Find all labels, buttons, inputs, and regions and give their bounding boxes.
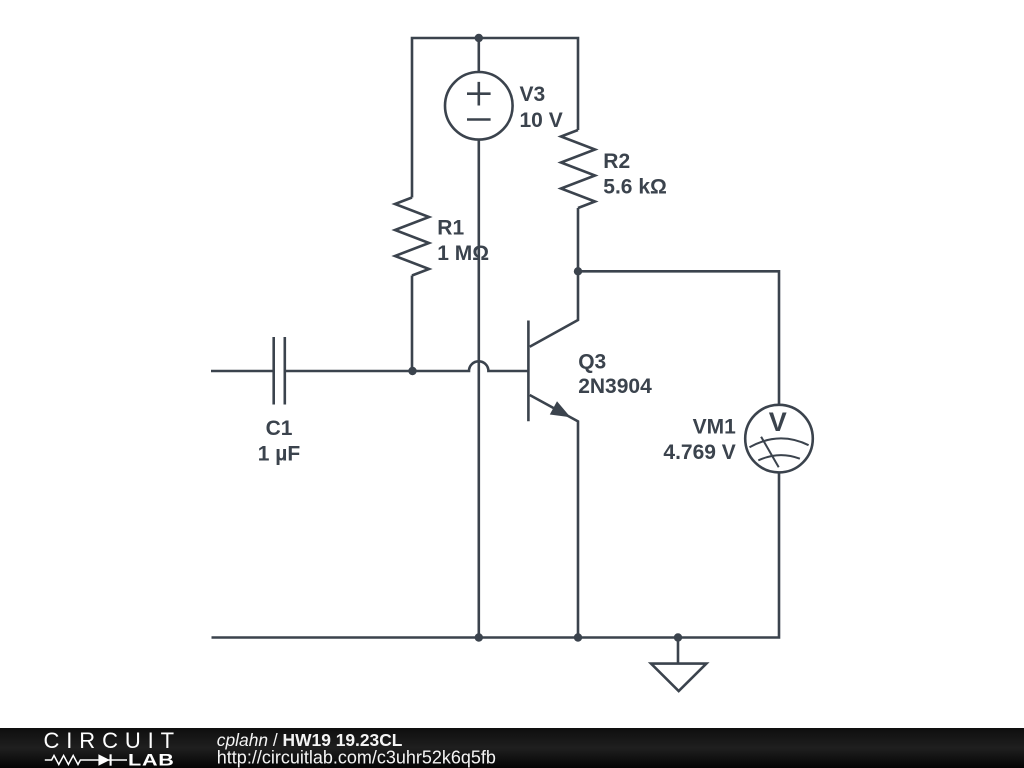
CircuitLab logo diode wire [99, 759, 127, 761]
svg-text:4.769 V: 4.769 V [663, 441, 735, 464]
node at bottom rail / ground [674, 633, 682, 641]
V3 plus sign [467, 82, 491, 106]
node at top rail / V3 [475, 34, 483, 42]
svg-text:5.6 kΩ: 5.6 kΩ [603, 176, 667, 199]
wire collector vertical into transistor [530, 271, 578, 347]
svg-text:LAB: LAB [128, 751, 175, 768]
footer bar [0, 728, 1024, 768]
svg-text:C1: C1 [266, 417, 293, 440]
svg-text:V3: V3 [520, 83, 546, 106]
svg-text:2N3904: 2N3904 [578, 375, 652, 398]
CircuitLab logo resistor squiggle [45, 756, 99, 765]
svg-text:1 µF: 1 µF [258, 442, 301, 465]
wire ground stem [677, 638, 680, 664]
svg-text:Q3: Q3 [578, 351, 606, 374]
voltmeter VM1 lower scale arc [758, 455, 800, 460]
svg-text:R1: R1 [437, 217, 464, 240]
svg-text:R2: R2 [603, 150, 630, 173]
node at bottom rail / V3 wire [475, 633, 483, 641]
node at bottom rail / emitter [574, 633, 582, 641]
wire V3 bottom lead down to bottom rail [477, 140, 480, 638]
transistor Q3 emitter diagonal and wire down to bottom rail [530, 395, 578, 638]
resistor R2 [561, 130, 595, 208]
CircuitLab logo diode triangle [98, 754, 109, 766]
resistor R1 [395, 198, 429, 276]
svg-text:V: V [769, 407, 787, 437]
wire base with hop over V3 wire [285, 361, 529, 371]
node at R1 bottom / base wire [408, 367, 416, 375]
svg-text:1 MΩ: 1 MΩ [437, 242, 489, 265]
ground symbol [651, 664, 706, 691]
wire bottom rail up to voltmeter bottom [212, 472, 780, 637]
svg-text:http://circuitlab.com/c3uhr52k: http://circuitlab.com/c3uhr52k6q5fb [217, 748, 496, 768]
wire V3 top lead [477, 38, 480, 72]
CircuitLab logo diode cathode bar [110, 754, 112, 765]
wire R2 bottom to collector node [577, 208, 580, 271]
voltmeter VM1 needle [761, 437, 779, 468]
voltmeter VM1 circle [745, 405, 813, 473]
wire R1 bottom to base node [411, 276, 414, 372]
voltmeter VM1 upper scale arc [750, 438, 809, 447]
capacitor C1 right plate [283, 337, 286, 405]
svg-text:CIRCUIT: CIRCUIT [44, 728, 182, 753]
wire top rail with left and right branch corners [412, 38, 578, 198]
node at collector [574, 267, 582, 275]
wire input left segment to C1 [211, 370, 274, 373]
svg-text:VM1: VM1 [693, 416, 737, 439]
V3 minus sign [467, 118, 491, 121]
wire collector node to voltmeter top [578, 271, 779, 405]
transistor Q3 emitter arrow [550, 401, 571, 417]
voltage source V3 [445, 72, 513, 140]
capacitor C1 left plate [272, 337, 275, 405]
svg-text:10 V: 10 V [520, 109, 563, 132]
transistor Q3 base bar [527, 321, 530, 422]
